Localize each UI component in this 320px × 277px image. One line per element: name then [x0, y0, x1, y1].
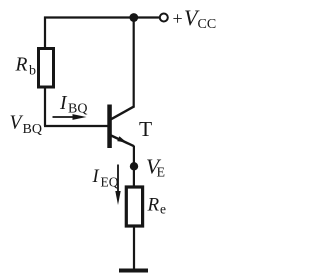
svg-text:V: V	[10, 113, 24, 134]
wire base	[44, 125, 109, 127]
terminal +Vcc open circle	[160, 14, 168, 22]
transistor T base bar	[107, 105, 112, 149]
wire collector vertical	[133, 18, 135, 108]
svg-text:CC: CC	[198, 17, 217, 32]
transistor T collector lead	[110, 106, 134, 120]
wire top rail	[44, 16, 159, 18]
junction dot at Vcc rail	[129, 13, 138, 22]
svg-text:+: +	[173, 9, 183, 29]
svg-text:E: E	[157, 166, 166, 181]
svg-text:T: T	[139, 117, 152, 141]
wire to ground	[133, 226, 135, 270]
node VE dot	[130, 162, 138, 170]
svg-text:EQ: EQ	[101, 175, 119, 190]
svg-text:R: R	[147, 195, 160, 216]
wire emitter vertical	[133, 146, 135, 188]
label VBQ node	[10, 113, 42, 138]
resistor Re	[126, 187, 142, 226]
svg-text:BQ: BQ	[23, 122, 42, 137]
label Rb	[15, 55, 37, 79]
svg-text:b: b	[29, 64, 36, 79]
label VE	[146, 155, 165, 181]
svg-text:BQ: BQ	[68, 102, 87, 117]
ground	[119, 269, 148, 273]
label +Vcc	[173, 5, 217, 32]
svg-text:e: e	[160, 202, 166, 217]
label Re	[147, 195, 167, 217]
svg-text:I: I	[59, 93, 68, 114]
wire left vertical (Vcc to base)	[44, 17, 46, 127]
transistor T emitter arrow	[117, 136, 127, 142]
resistor Rb	[39, 49, 54, 88]
label IBQ	[59, 93, 87, 117]
label IEQ	[92, 167, 119, 190]
transistor T emitter lead	[110, 135, 134, 146]
current arrow IBQ	[53, 114, 87, 120]
current arrow IEQ	[115, 165, 120, 206]
svg-text:R: R	[15, 55, 28, 76]
svg-text:I: I	[92, 167, 100, 187]
